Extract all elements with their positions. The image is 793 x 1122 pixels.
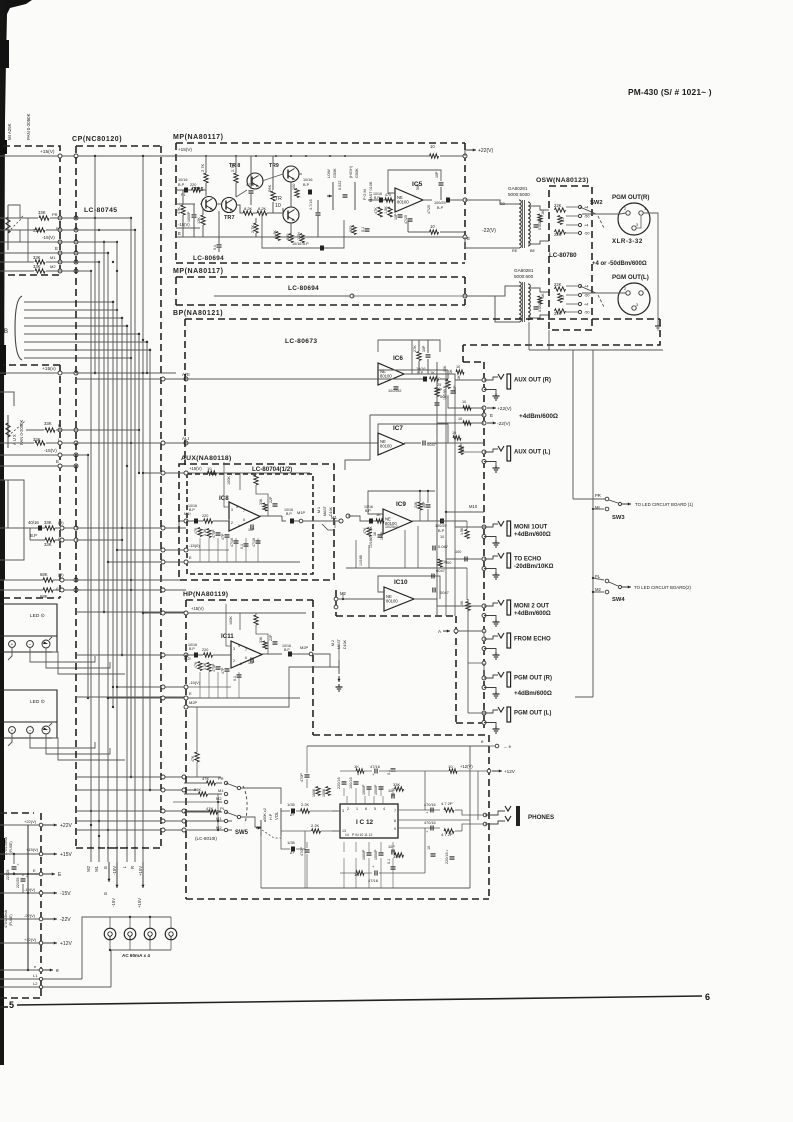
svg-text:6: 6 <box>243 518 245 522</box>
wire right rail to sw3 <box>572 350 574 499</box>
svg-text:10: 10 <box>427 846 431 850</box>
svg-text:1000P: 1000P <box>187 211 191 222</box>
jack PGM OUT (R) <box>482 676 486 680</box>
svg-text:1.5K: 1.5K <box>384 206 388 214</box>
AC lamp wires <box>82 917 171 979</box>
svg-text:220: 220 <box>202 648 208 652</box>
wire bus V10 <box>126 326 128 848</box>
wire +15V rail mp <box>176 155 430 157</box>
svg-text:D10K: D10K <box>343 639 347 649</box>
wire pgm l feed <box>468 712 484 714</box>
wire +15V <box>0 155 176 157</box>
svg-text:56K: 56K <box>194 787 201 792</box>
wire corridor rail <box>467 599 469 713</box>
svg-text:PR: PR <box>218 776 224 781</box>
svg-text:B.P: B.P <box>178 183 185 187</box>
svg-text:220: 220 <box>202 514 208 518</box>
svg-text:P G M: P G M <box>363 189 367 200</box>
svg-text:LC-80694: LC-80694 <box>193 255 224 262</box>
svg-text:80100: 80100 <box>380 444 392 449</box>
bus junction dots <box>87 454 89 456</box>
svg-text:-50: -50 <box>584 232 590 236</box>
bp left edge lower <box>184 460 186 465</box>
svg-text:1K: 1K <box>541 210 545 215</box>
svg-text:56K: 56K <box>416 183 420 190</box>
wire bus V1 <box>87 455 89 698</box>
wire to moni1 <box>466 521 468 529</box>
wire aux out <box>260 515 282 517</box>
svg-text:220/25: 220/25 <box>16 878 20 888</box>
svg-text:25: 25 <box>437 383 441 387</box>
row extensions to bus <box>50 217 131 219</box>
wire ic5 input chain <box>368 199 395 201</box>
wire bus B3 <box>24 317 122 319</box>
svg-text:+: + <box>426 830 428 834</box>
wire aux fb <box>224 462 229 507</box>
svg-text:5: 5 <box>238 644 240 648</box>
lamp 2 <box>124 928 136 940</box>
svg-text:e: e <box>56 968 59 974</box>
svg-text:5000:600: 5000:600 <box>514 274 534 279</box>
terminal E bp <box>482 413 486 417</box>
svg-text:L1: L1 <box>33 973 38 978</box>
wire M1 to ic9 <box>339 519 343 523</box>
svg-text:1: 1 <box>356 807 358 811</box>
svg-text:2.2K: 2.2K <box>311 823 320 828</box>
svg-text:470P: 470P <box>300 773 304 782</box>
wire bus V11 <box>130 218 132 777</box>
wire to phones <box>455 809 462 811</box>
wire e top rail <box>307 745 489 747</box>
svg-text:220/16: 220/16 <box>337 777 341 789</box>
jack PHONES <box>483 813 487 817</box>
wire sw2 to xlr R <box>582 213 626 214</box>
svg-text:L2: L2 <box>33 981 38 986</box>
svg-text:AUX(NA80118): AUX(NA80118) <box>181 455 231 462</box>
wire bus V6 <box>107 253 109 848</box>
wire bus V5 <box>103 242 105 612</box>
bottom rule 5-6 <box>17 996 702 1005</box>
svg-text:100P: 100P <box>380 531 384 540</box>
svg-text:M2P: M2P <box>189 700 198 705</box>
lamp 4 <box>165 928 177 940</box>
wire to led board 2 <box>622 586 631 588</box>
wire to led board 1 <box>622 503 631 505</box>
wire -22 feed <box>437 423 484 435</box>
terminal -22V bp <box>482 421 486 425</box>
svg-text:5: 5 <box>9 1000 14 1010</box>
bp right edge <box>463 319 660 345</box>
svg-text:M 1: M 1 <box>317 507 321 513</box>
svg-text:Δ+: Δ+ <box>290 813 295 817</box>
lamp 1 <box>104 928 116 940</box>
svg-text:47/16: 47/16 <box>252 538 256 547</box>
svg-text:LOW: LOW <box>327 169 331 178</box>
svg-text:E: E <box>189 691 192 696</box>
svg-text:+4dBm/600Ω: +4dBm/600Ω <box>514 532 551 538</box>
svg-text:3: 3 <box>636 223 638 227</box>
svg-text:10P: 10P <box>435 171 439 178</box>
op-amp IC8 <box>229 502 260 531</box>
svg-text:47/16: 47/16 <box>368 878 379 883</box>
svg-text:M2P: M2P <box>300 645 309 650</box>
svg-text:+15(V): +15(V) <box>189 466 202 471</box>
wire tr bias <box>182 190 184 205</box>
svg-text:B.P: B.P <box>365 509 371 513</box>
svg-text:I C 12: I C 12 <box>356 819 373 826</box>
wire ic6 top loop <box>378 340 440 352</box>
wire bus V16 <box>149 350 151 790</box>
svg-text:PR: PR <box>52 212 58 217</box>
svg-text:IC10: IC10 <box>394 579 408 586</box>
lamp 3 <box>144 928 156 940</box>
wire M2I feed <box>76 654 186 656</box>
svg-text:LC-80745: LC-80745 <box>84 207 118 214</box>
wire ic12 right pins <box>398 809 440 811</box>
svg-text:-15V: -15V <box>111 898 116 907</box>
wire ic9 top loop <box>368 491 435 514</box>
terminal +22V bp <box>482 406 486 410</box>
svg-text:470P: 470P <box>300 847 304 856</box>
svg-text:3: 3 <box>636 303 638 307</box>
svg-text:0.047: 0.047 <box>438 544 449 549</box>
svg-text:2.2K: 2.2K <box>301 802 310 807</box>
svg-text:2: 2 <box>233 659 235 663</box>
svg-text:HP(NA80119): HP(NA80119) <box>183 591 228 598</box>
svg-text:R: R <box>130 866 135 869</box>
svg-text:33K: 33K <box>33 264 41 269</box>
svg-text:+4: +4 <box>584 224 588 228</box>
svg-text:MONI 2 OUT: MONI 2 OUT <box>514 604 549 610</box>
svg-text:OSW(NA80123): OSW(NA80123) <box>536 177 589 184</box>
svg-text:M1: M1 <box>94 865 99 871</box>
svg-text:E: E <box>103 866 108 869</box>
svg-text:10: 10 <box>452 431 456 435</box>
svg-text:LED ⊙: LED ⊙ <box>30 699 45 705</box>
svg-text:+15V: +15V <box>137 898 142 908</box>
svg-text:PM-430 (S/ # 1021~ ): PM-430 (S/ # 1021~ ) <box>628 87 712 97</box>
svg-text:6: 6 <box>245 656 247 660</box>
svg-text:+12V: +12V <box>60 941 72 947</box>
svg-text:MAST: MAST <box>323 505 327 516</box>
svg-text:LC-80704(1/2): LC-80704(1/2) <box>252 466 292 473</box>
svg-text:TO LED CIRCUIT BOARD (1): TO LED CIRCUIT BOARD (1) <box>635 502 694 507</box>
wire M1 exit <box>335 520 339 522</box>
wire bus B4 <box>24 325 127 327</box>
svg-text:0.1: 0.1 <box>240 544 244 549</box>
svg-text:1.5K: 1.5K <box>460 527 464 535</box>
wire ic5 out to edge <box>450 199 465 201</box>
wire +22 feed <box>448 396 484 408</box>
svg-text:470/16: 470/16 <box>424 803 436 807</box>
svg-text:-15V: -15V <box>112 866 117 875</box>
wire bus B5 <box>24 333 139 335</box>
svg-text:Δ+: Δ+ <box>290 851 295 855</box>
wire bus B6 <box>24 341 147 343</box>
wire bus B8 <box>24 357 131 359</box>
svg-text:IC7: IC7 <box>393 425 403 432</box>
svg-text:M 2: M 2 <box>331 640 335 646</box>
svg-text:PGM OUT(L): PGM OUT(L) <box>612 274 649 281</box>
svg-text:470P: 470P <box>212 529 216 538</box>
svg-text:100/25: 100/25 <box>434 201 446 205</box>
svg-text:27K: 27K <box>413 345 417 352</box>
svg-text:-15(V): -15(V) <box>189 680 201 685</box>
svg-text:G50K: G50K <box>355 168 359 178</box>
svg-text:1500P: 1500P <box>374 784 378 795</box>
jack TO ECHO <box>482 557 486 561</box>
wire xfmr2 primary <box>465 286 519 296</box>
wire xlr L ground <box>657 299 659 326</box>
svg-text:+15(V): +15(V) <box>191 606 204 611</box>
wire xfmr drops to bp <box>528 322 530 350</box>
wire ic5 feedback <box>423 199 432 201</box>
svg-text:SW3: SW3 <box>612 515 625 521</box>
svg-text:-15(V): -15(V) <box>44 448 57 453</box>
svg-text:+4dBm/600Ω: +4dBm/600Ω <box>519 413 558 420</box>
svg-text:1.2H: 1.2H <box>297 232 301 240</box>
svg-text:0.1: 0.1 <box>387 770 391 775</box>
svg-text:1.2K: 1.2K <box>273 230 277 238</box>
svg-text:2.7K: 2.7K <box>200 163 205 172</box>
bp bottom notch <box>335 590 337 616</box>
svg-text:10P: 10P <box>422 501 426 508</box>
svg-text:100K: 100K <box>322 788 326 797</box>
svg-text:0047: 0047 <box>440 590 450 595</box>
wire bus V2 <box>90 271 92 848</box>
svg-text:B.P: B.P <box>30 533 37 538</box>
svg-text:AUX OUT (L): AUX OUT (L) <box>514 450 550 456</box>
svg-text:4: 4 <box>383 807 385 811</box>
jack MONI 2 OUT <box>482 604 486 608</box>
svg-text:33K: 33K <box>393 782 400 787</box>
wires lower-left to sw5 <box>76 776 221 778</box>
svg-text:470: 470 <box>385 193 391 197</box>
svg-text:B.P: B.P <box>303 183 310 187</box>
svg-text:0.1: 0.1 <box>213 245 217 250</box>
svg-text:33K: 33K <box>44 520 52 525</box>
svg-text:LC-80694: LC-80694 <box>288 285 319 292</box>
svg-text:TR7: TR7 <box>224 215 235 221</box>
svg-text:1: 1 <box>644 287 646 291</box>
svg-text:-50: -50 <box>584 311 590 315</box>
svg-text:E: E <box>103 892 108 895</box>
cap 0047 ic10 fb <box>378 576 440 599</box>
svg-text:5: 5 <box>236 505 238 509</box>
svg-text:MP(NA80117): MP(NA80117) <box>173 268 224 275</box>
wire mp2 <box>214 295 352 297</box>
svg-text:2.7K: 2.7K <box>230 163 235 172</box>
svg-text:AC 60mA x 4: AC 60mA x 4 <box>122 953 150 958</box>
wire E <box>0 252 76 254</box>
box power supply <box>0 812 34 814</box>
LED board terminals 1 <box>9 641 16 648</box>
svg-text:10: 10 <box>443 560 447 564</box>
svg-text:-15(0): -15(0) <box>189 543 200 548</box>
svg-text:100K: 100K <box>312 788 316 797</box>
svg-text:47/16: 47/16 <box>230 538 234 547</box>
svg-text:470/16: 470/16 <box>424 821 436 825</box>
svg-text:PHONES: PHONES <box>528 814 554 821</box>
wire xfmr2 secondary <box>528 288 549 292</box>
svg-text:+15V: +15V <box>138 866 143 876</box>
svg-text:B.P: B.P <box>189 647 195 651</box>
svg-text:B: B <box>4 329 8 335</box>
svg-text:PGM OUT (L): PGM OUT (L) <box>514 711 551 717</box>
op-amp IC5 <box>395 188 423 212</box>
vertical rails bp <box>436 362 438 616</box>
svg-text:-15(V): -15(V) <box>42 235 55 240</box>
wire -15V <box>0 241 76 243</box>
LED board wires 2 <box>8 734 12 746</box>
svg-text:10: 10 <box>430 144 435 149</box>
svg-text:-15V: -15V <box>60 891 71 897</box>
svg-text:1: 1 <box>240 662 242 666</box>
wire bus V4 <box>98 262 100 848</box>
svg-text:-15(V): -15(V) <box>24 887 36 892</box>
svg-text:-22V: -22V <box>60 917 71 923</box>
switch sw5 arms <box>226 783 239 788</box>
svg-text:H.P: H.P <box>269 813 273 820</box>
svg-text:1500P: 1500P <box>374 849 378 860</box>
svg-text:1/35: 1/35 <box>287 802 296 807</box>
svg-text:33K: 33K <box>33 255 41 260</box>
switch arm sw2 <box>580 207 596 214</box>
svg-text:2: 2 <box>624 207 626 211</box>
wire ALI feed <box>76 442 186 444</box>
svg-text:10P: 10P <box>388 845 395 849</box>
wire M1I feed <box>179 521 186 528</box>
svg-text:-20dBm/10KΩ: -20dBm/10KΩ <box>514 564 554 570</box>
svg-text:10: 10 <box>440 535 444 539</box>
svg-text:PAN 0-2050K: PAN 0-2050K <box>19 419 24 445</box>
svg-text:M1: M1 <box>218 788 224 793</box>
svg-text:0047: 0047 <box>436 568 446 573</box>
svg-text:(FUSE): (FUSE) <box>9 914 13 926</box>
svg-text:0.1: 0.1 <box>387 859 391 864</box>
svg-text:B.P: B.P <box>437 206 444 210</box>
svg-text:1000P: 1000P <box>362 849 366 860</box>
svg-text:B.P: B.P <box>286 512 292 516</box>
connector B bracket <box>15 296 22 360</box>
left input box 1 (dashed) <box>3 146 60 275</box>
bus exit arrows bottom <box>90 848 92 862</box>
svg-text:0.022: 0.022 <box>338 180 342 190</box>
svg-text:100K: 100K <box>229 616 233 625</box>
wire ic6 out <box>404 373 437 375</box>
wire sw5 bus <box>217 794 219 830</box>
svg-text:E: E <box>178 231 181 236</box>
svg-text:8.2K: 8.2K <box>244 206 253 211</box>
svg-text:MP(NA80117): MP(NA80117) <box>173 134 224 141</box>
wire bus B1 <box>24 301 113 303</box>
svg-text:E: E <box>189 555 192 560</box>
svg-text:8: 8 <box>394 819 396 823</box>
wire aux gnd rail <box>186 561 300 563</box>
svg-text:e: e <box>481 739 484 744</box>
wire bus V9 <box>121 318 123 655</box>
svg-text:470/145mA: 470/145mA <box>4 836 8 855</box>
svg-text:1K: 1K <box>376 513 381 517</box>
svg-text:4.7 2P: 4.7 2P <box>441 801 453 806</box>
svg-text:AUX OUT (R): AUX OUT (R) <box>514 378 551 384</box>
svg-text:9: 9 <box>394 827 396 831</box>
svg-text:10: 10 <box>458 417 462 421</box>
svg-text:10: 10 <box>462 400 466 404</box>
svg-text:+4 or -50dBm/600Ω: +4 or -50dBm/600Ω <box>592 261 647 267</box>
wire E out mp <box>463 235 467 239</box>
wire ic7 out <box>404 442 421 444</box>
svg-text:M2I: M2I <box>184 656 191 661</box>
svg-text:D10K: D10K <box>329 506 333 516</box>
svg-text:100/25: 100/25 <box>435 524 447 528</box>
op-amp IC11 <box>231 641 262 668</box>
svg-text:+22V: +22V <box>60 823 72 829</box>
op-amp IC7 <box>378 433 404 455</box>
svg-text:TO ECHO: TO ECHO <box>514 557 542 563</box>
svg-text:-22(V): -22(V) <box>482 228 496 234</box>
wire +12v <box>425 770 449 772</box>
svg-text:ARI: ARI <box>182 372 190 377</box>
svg-text:10/16B: 10/16B <box>359 555 363 566</box>
svg-text:10P: 10P <box>248 528 255 532</box>
svg-text:1K: 1K <box>449 369 453 374</box>
svg-text:M1: M1 <box>50 255 56 260</box>
wire ph bottom rows <box>340 872 356 874</box>
svg-text:(FUSE): (FUSE) <box>9 841 13 853</box>
wire +15v aux <box>186 472 310 474</box>
svg-text:BP(NA80121): BP(NA80121) <box>173 310 223 317</box>
LED board box 1 <box>0 604 57 652</box>
switch arm sw2 L <box>580 286 596 293</box>
svg-text:M2: M2 <box>216 796 222 801</box>
wire E rail mp <box>176 236 465 238</box>
svg-text:10/16: 10/16 <box>303 178 313 182</box>
pot aux pan <box>7 415 9 448</box>
left enclosure lines <box>0 392 14 406</box>
svg-text:10/16: 10/16 <box>178 178 188 182</box>
svg-text:47/16: 47/16 <box>370 764 381 769</box>
svg-text:RE: RE <box>512 249 518 253</box>
svg-text:47K: 47K <box>202 776 209 781</box>
svg-text:E: E <box>56 459 59 464</box>
svg-text:(LC-8010I): (LC-8010I) <box>195 836 217 841</box>
svg-text:470P: 470P <box>212 663 216 672</box>
svg-text:G50K: G50K <box>333 168 337 178</box>
svg-text:47P: 47P <box>221 533 225 540</box>
op-amp IC9 <box>383 509 412 534</box>
wire ic11 out <box>262 653 282 655</box>
svg-text:5: 5 <box>374 807 376 811</box>
wire ic9 out <box>412 520 441 522</box>
svg-text:B.P: B.P <box>438 529 445 533</box>
svg-text:M10: M10 <box>469 504 478 509</box>
svg-text:P IN 10 11 12: P IN 10 11 12 <box>352 833 373 837</box>
wire m2p to pot <box>313 654 339 667</box>
svg-text:SW4: SW4 <box>612 597 625 603</box>
svg-text:22P: 22P <box>269 496 273 503</box>
svg-text:10: 10 <box>275 203 281 209</box>
svg-text:33K: 33K <box>38 210 46 215</box>
svg-text:10P: 10P <box>422 345 426 352</box>
wire right rail 2 <box>592 350 594 697</box>
svg-text:→ e: → e <box>503 744 512 749</box>
svg-text:14: 14 <box>345 833 349 837</box>
svg-text:1K: 1K <box>373 531 377 536</box>
svg-text:7: 7 <box>245 648 247 652</box>
svg-text:1/35: 1/35 <box>287 840 296 845</box>
svg-text:10P: 10P <box>394 213 398 220</box>
